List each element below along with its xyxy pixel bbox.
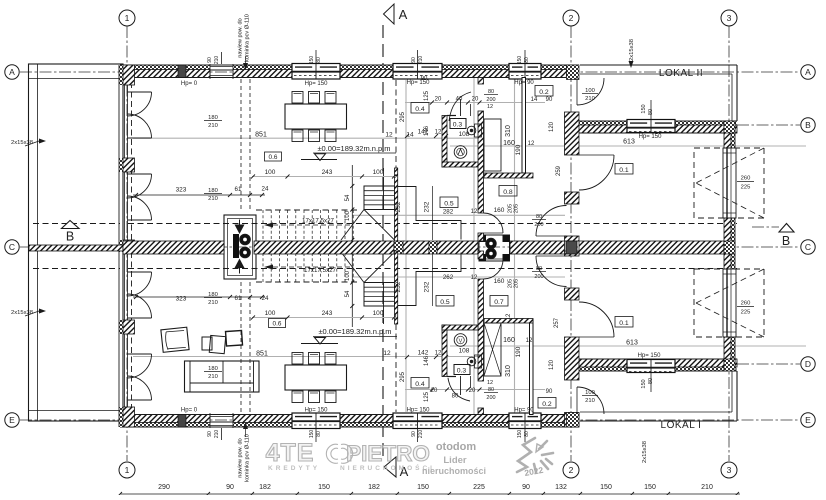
left terrace outline [29,64,124,421]
svg-text:100: 100 [345,210,351,221]
svg-text:100: 100 [585,88,595,94]
window [292,64,340,80]
svg-text:nawiew pow. do: nawiew pow. do [238,438,244,478]
svg-text:310: 310 [505,365,512,377]
washbasin upper [454,146,467,159]
svg-text:90: 90 [207,431,213,437]
svg-text:NIERUCHOMOŚCI: NIERUCHOMOŚCI [340,463,435,472]
svg-text:D: D [805,359,811,369]
svg-text:Hp= 0: Hp= 0 [181,408,198,414]
svg-text:160: 160 [503,337,515,344]
svg-text:150: 150 [644,484,656,491]
svg-text:±0.00=189.32m.n.p.m: ±0.00=189.32m.n.p.m [318,327,391,336]
door to room 0.7 lower [536,255,567,257]
svg-text:108: 108 [459,348,470,355]
dim chain 323-61-24 upper [133,194,265,196]
svg-text:kominka pcv Ø-110: kominka pcv Ø-110 [245,434,251,482]
svg-text:150: 150 [318,484,330,491]
svg-text:40: 40 [456,97,463,103]
svg-text:3: 3 [727,13,732,23]
svg-text:90: 90 [207,57,213,63]
svg-text:Lider: Lider [443,455,467,466]
door to 0.5 upper [484,232,504,234]
svg-text:225: 225 [741,185,751,191]
svg-text:0.8: 0.8 [503,189,513,196]
svg-text:210: 210 [418,430,424,439]
watermark star 2022 [517,438,553,472]
window [509,64,541,80]
svg-text:B: B [805,120,811,130]
svg-text:otodom: otodom [436,441,477,453]
party wall (center) [29,245,123,251]
svg-text:Hp= 150: Hp= 150 [305,408,329,414]
svg-text:80: 80 [452,394,459,400]
svg-text:54: 54 [345,194,351,201]
svg-text:150: 150 [641,104,647,113]
window [627,120,675,133]
svg-text:20: 20 [431,388,438,394]
svg-text:120: 120 [549,359,555,370]
svg-text:90: 90 [226,484,234,491]
svg-text:100: 100 [265,169,276,176]
svg-text:100: 100 [265,310,276,317]
window [627,360,675,373]
svg-text:0.4: 0.4 [415,381,425,388]
svg-text:125: 125 [424,391,430,402]
svg-text:Hp= 90: Hp= 90 [514,408,534,414]
svg-text:Hp= 0: Hp= 0 [181,81,198,87]
svg-text:150: 150 [309,56,315,65]
svg-text:nawiew pow. do: nawiew pow. do [238,18,244,58]
svg-text:B: B [66,230,74,244]
svg-text:0.2: 0.2 [542,401,552,408]
svg-text:20: 20 [472,97,479,103]
washbasin lower [454,334,467,347]
kitchen door upper [449,92,471,121]
hall wall horizontal [484,173,533,178]
svg-text:20: 20 [435,97,442,103]
section line A-A [382,25,384,460]
right wall tall windows [723,148,736,218]
svg-text:160: 160 [503,140,515,147]
kitchen/bath wall [478,78,484,85]
svg-text:295: 295 [400,111,406,122]
left exterior wall [119,65,123,85]
svg-text:182: 182 [368,484,380,491]
svg-text:12: 12 [487,104,493,110]
bottom exterior wall [120,423,210,428]
section line B dashes on terrace [33,223,120,225]
svg-text:0.1: 0.1 [619,167,629,174]
svg-text:205: 205 [514,204,520,213]
svg-text:80: 80 [524,431,530,437]
svg-text:146: 146 [424,355,430,366]
svg-text:E: E [805,415,811,425]
coffee tables [202,337,212,350]
svg-text:54: 54 [345,290,351,297]
svg-text:180: 180 [208,188,218,194]
svg-text:80: 80 [536,266,542,272]
svg-text:190: 190 [515,144,522,155]
door frame lines left wall [124,85,126,158]
svg-text:A: A [805,67,811,77]
svg-text:20: 20 [469,388,476,394]
0.6 room labels [265,152,282,161]
svg-text:125: 125 [424,90,430,101]
entrance door lower [576,387,578,414]
svg-text:243: 243 [322,310,333,317]
svg-text:±0.00=189.32m.n.p.m: ±0.00=189.32m.n.p.m [317,144,390,153]
svg-text:100: 100 [585,390,595,396]
svg-text:24: 24 [262,295,269,302]
svg-text:A: A [9,67,15,77]
svg-text:80: 80 [648,109,654,115]
svg-text:190: 190 [515,346,522,357]
watermark otodom [422,441,486,476]
svg-text:210: 210 [208,196,218,202]
svg-text:1: 1 [125,465,130,475]
svg-text:80: 80 [488,89,494,95]
svg-text:61: 61 [235,295,242,302]
svg-text:0.3: 0.3 [457,368,467,375]
svg-text:200: 200 [486,97,495,103]
fireplace / chimney on party wall [224,215,256,279]
svg-text:90: 90 [546,97,553,103]
svg-text:851: 851 [255,132,267,139]
svg-text:C: C [805,242,811,252]
svg-text:851: 851 [256,351,268,358]
svg-text:12: 12 [471,209,478,215]
dashed terrace [694,148,764,218]
svg-text:323: 323 [176,187,187,194]
svg-text:259: 259 [556,165,562,176]
svg-text:C: C [9,242,15,252]
svg-text:17x17,5x27: 17x17,5x27 [304,267,337,274]
watermark 4TE PIETRO [266,439,435,472]
door to room 0.8 upper [536,235,567,237]
svg-text:150: 150 [309,430,315,439]
door to room 0.1 upper [579,154,614,156]
svg-text:12: 12 [385,132,393,139]
double door left wall [128,353,152,355]
svg-text:2: 2 [569,465,574,475]
svg-text:nieruchomości: nieruchomości [422,466,486,476]
WC lower [467,357,476,366]
section marker A top [384,4,395,24]
svg-text:180: 180 [208,366,218,372]
window [393,413,442,429]
svg-text:260: 260 [741,301,751,307]
double door left wall [128,271,152,273]
svg-text:Hp= 90: Hp= 90 [514,80,534,86]
svg-text:260: 260 [741,176,751,182]
window [509,413,541,429]
svg-text:210: 210 [585,398,595,404]
stairs upper unit [256,209,358,211]
bottom-right porch [580,420,737,422]
svg-text:180: 180 [208,115,218,121]
svg-text:108: 108 [459,131,470,138]
WC upper [467,126,476,135]
svg-text:150: 150 [641,379,647,388]
svg-text:2x15x38: 2x15x38 [642,441,648,463]
svg-text:613: 613 [623,139,635,146]
svg-text:210: 210 [701,484,713,491]
svg-text:0.7: 0.7 [494,299,504,306]
svg-text:4TE: 4TE [266,439,315,467]
svg-text:80: 80 [316,431,322,437]
double door left wall [128,91,152,93]
entrance corner blocks [567,65,580,80]
hall wall vertical [522,78,526,174]
svg-text:232: 232 [424,281,431,292]
svg-text:282: 282 [443,209,454,216]
svg-text:LOKAL II: LOKAL II [659,68,703,79]
svg-text:12: 12 [435,351,442,357]
window [393,64,442,80]
right wall junction blocks [724,121,735,133]
svg-text:E: E [9,415,15,425]
svg-text:80: 80 [536,214,542,220]
chimney block in bottom wall [178,415,186,428]
armchair [161,327,189,352]
window [292,413,340,429]
svg-text:100: 100 [373,310,384,317]
svg-text:Hp= 150: Hp= 150 [305,81,329,87]
svg-text:100: 100 [373,169,384,176]
svg-text:V: V [459,339,463,345]
section marker B left [62,221,80,229]
svg-text:61: 61 [235,186,242,193]
svg-text:80: 80 [316,57,322,63]
party wall chimney with flues [479,235,510,261]
section marker B right [779,224,794,233]
window mullion extension lines [315,50,317,64]
room labels [411,103,429,114]
svg-text:12: 12 [487,380,493,386]
svg-text:0.6: 0.6 [269,154,278,161]
svg-text:2: 2 [569,13,574,23]
svg-text:150: 150 [517,430,523,439]
svg-text:295: 295 [400,371,406,382]
svg-text:225: 225 [741,310,751,316]
terrace french-door opening bottom wall [210,425,233,427]
kitchen counter outline upper [398,187,462,240]
entrance door upper [576,78,578,105]
svg-text:PIETRO: PIETRO [346,441,430,466]
svg-text:90: 90 [421,76,428,82]
svg-text:210: 210 [418,56,424,65]
door to room 0.1 lower [579,336,614,338]
svg-text:160: 160 [494,207,505,214]
svg-text:1: 1 [125,13,130,23]
svg-text:2x15x38: 2x15x38 [11,140,33,146]
svg-text:2x15x38: 2x15x38 [629,39,635,61]
svg-text:KREDYTY: KREDYTY [268,465,320,472]
svg-text:210: 210 [208,300,218,306]
wardrobe upper [484,119,501,171]
svg-text:225: 225 [473,484,485,491]
hall/room divider wall [565,112,580,155]
svg-text:232: 232 [395,281,402,292]
svg-text:150: 150 [417,484,429,491]
party wall junction block [566,241,577,254]
grid axis lines [126,26,128,461]
svg-text:205: 205 [514,279,520,288]
wardrobe lower [484,323,501,376]
svg-text:90: 90 [522,484,530,491]
dim chain 323-61-24 lower [133,296,265,298]
svg-text:Hp= 150: Hp= 150 [407,408,431,414]
chimney air duct dashed lines [240,79,242,210]
svg-text:80: 80 [524,57,530,63]
svg-text:160: 160 [494,278,505,285]
svg-text:182: 182 [259,484,271,491]
svg-text:200: 200 [534,274,543,280]
svg-text:2x15x38: 2x15x38 [11,310,33,316]
svg-text:323: 323 [176,296,187,303]
svg-text:80: 80 [488,387,494,393]
svg-text:210: 210 [208,123,218,129]
svg-text:150: 150 [517,56,523,65]
svg-text:12: 12 [435,130,442,136]
svg-text:17x17,5x27: 17x17,5x27 [302,218,335,225]
chimney block in top wall [178,65,186,78]
svg-text:0.2: 0.2 [539,89,549,96]
svg-text:132: 132 [555,484,567,491]
svg-text:B: B [782,234,790,248]
svg-text:100: 100 [345,270,351,281]
svg-text:12: 12 [471,275,478,281]
svg-text:80: 80 [648,378,654,384]
svg-text:0.1: 0.1 [619,320,629,327]
section marker A bottom [384,457,396,477]
top-right porch [580,64,737,66]
svg-text:180: 180 [208,292,218,298]
svg-text:150: 150 [600,484,612,491]
dining table with chairs [285,365,347,390]
svg-text:0.5: 0.5 [440,299,450,306]
svg-text:210: 210 [214,56,220,65]
svg-text:0.5: 0.5 [444,201,454,208]
small chair [226,330,243,346]
svg-text:12: 12 [506,313,512,320]
svg-text:210: 210 [585,96,595,102]
svg-text:200: 200 [486,395,495,401]
door to 0.5 lower [484,258,504,260]
terrace french-door opening top wall [210,66,233,68]
kitchen counter outline lower [398,253,462,306]
bathroom walls upper [442,116,447,168]
dashed ceiling/void lines [131,82,133,240]
svg-text:146: 146 [424,125,430,136]
svg-text:290: 290 [158,484,170,491]
svg-text:14: 14 [531,97,538,103]
svg-text:232: 232 [424,201,431,212]
svg-text:200: 200 [534,222,543,228]
sofa [185,361,260,392]
dim extension line [432,186,434,240]
stairs lower unit [256,281,358,283]
svg-text:0.6: 0.6 [273,321,282,328]
svg-text:232: 232 [395,201,402,212]
svg-text:LOKAL I: LOKAL I [661,420,702,431]
dashed terrace [694,269,764,337]
right exterior wall [731,121,735,371]
bathroom walls lower [442,325,447,377]
window mullion extension lines [315,429,317,443]
svg-text:24: 24 [262,186,269,193]
svg-text:243: 243 [322,169,333,176]
svg-text:210: 210 [208,374,218,380]
svg-text:90: 90 [546,389,553,395]
grid bubbles [119,10,135,26]
svg-text:A: A [399,7,408,22]
svg-text:310: 310 [505,125,512,137]
top exterior wall [120,65,210,70]
dim chain 100-243-100 upper [252,176,396,178]
svg-text:90: 90 [411,57,417,63]
svg-text:210: 210 [214,430,220,439]
svg-text:613: 613 [626,340,638,347]
svg-text:3: 3 [727,465,732,475]
svg-text:120: 120 [549,121,555,132]
svg-text:12: 12 [526,338,533,344]
svg-text:Hp= 150: Hp= 150 [638,353,662,359]
dim chain 100-243-100 lower [252,317,396,319]
party wall checker blocks [394,241,403,254]
svg-text:257: 257 [554,317,560,328]
row B wall [567,121,737,125]
svg-text:90: 90 [411,431,417,437]
gray dimension guide lines [133,137,483,139]
svg-text:0.3: 0.3 [453,122,463,129]
double door left wall [128,173,152,175]
svg-text:12: 12 [528,141,535,147]
svg-text:142: 142 [418,350,429,357]
row D wall [567,367,737,371]
svg-text:0.4: 0.4 [415,106,425,113]
dining table with chairs [285,104,347,129]
svg-text:kominka pcv Ø-110: kominka pcv Ø-110 [245,14,251,62]
svg-text:262: 262 [443,274,454,281]
stair side wall [395,168,398,241]
svg-text:12: 12 [383,350,391,357]
kitchen door lower [448,378,470,401]
svg-text:Hp= 150: Hp= 150 [639,134,663,140]
